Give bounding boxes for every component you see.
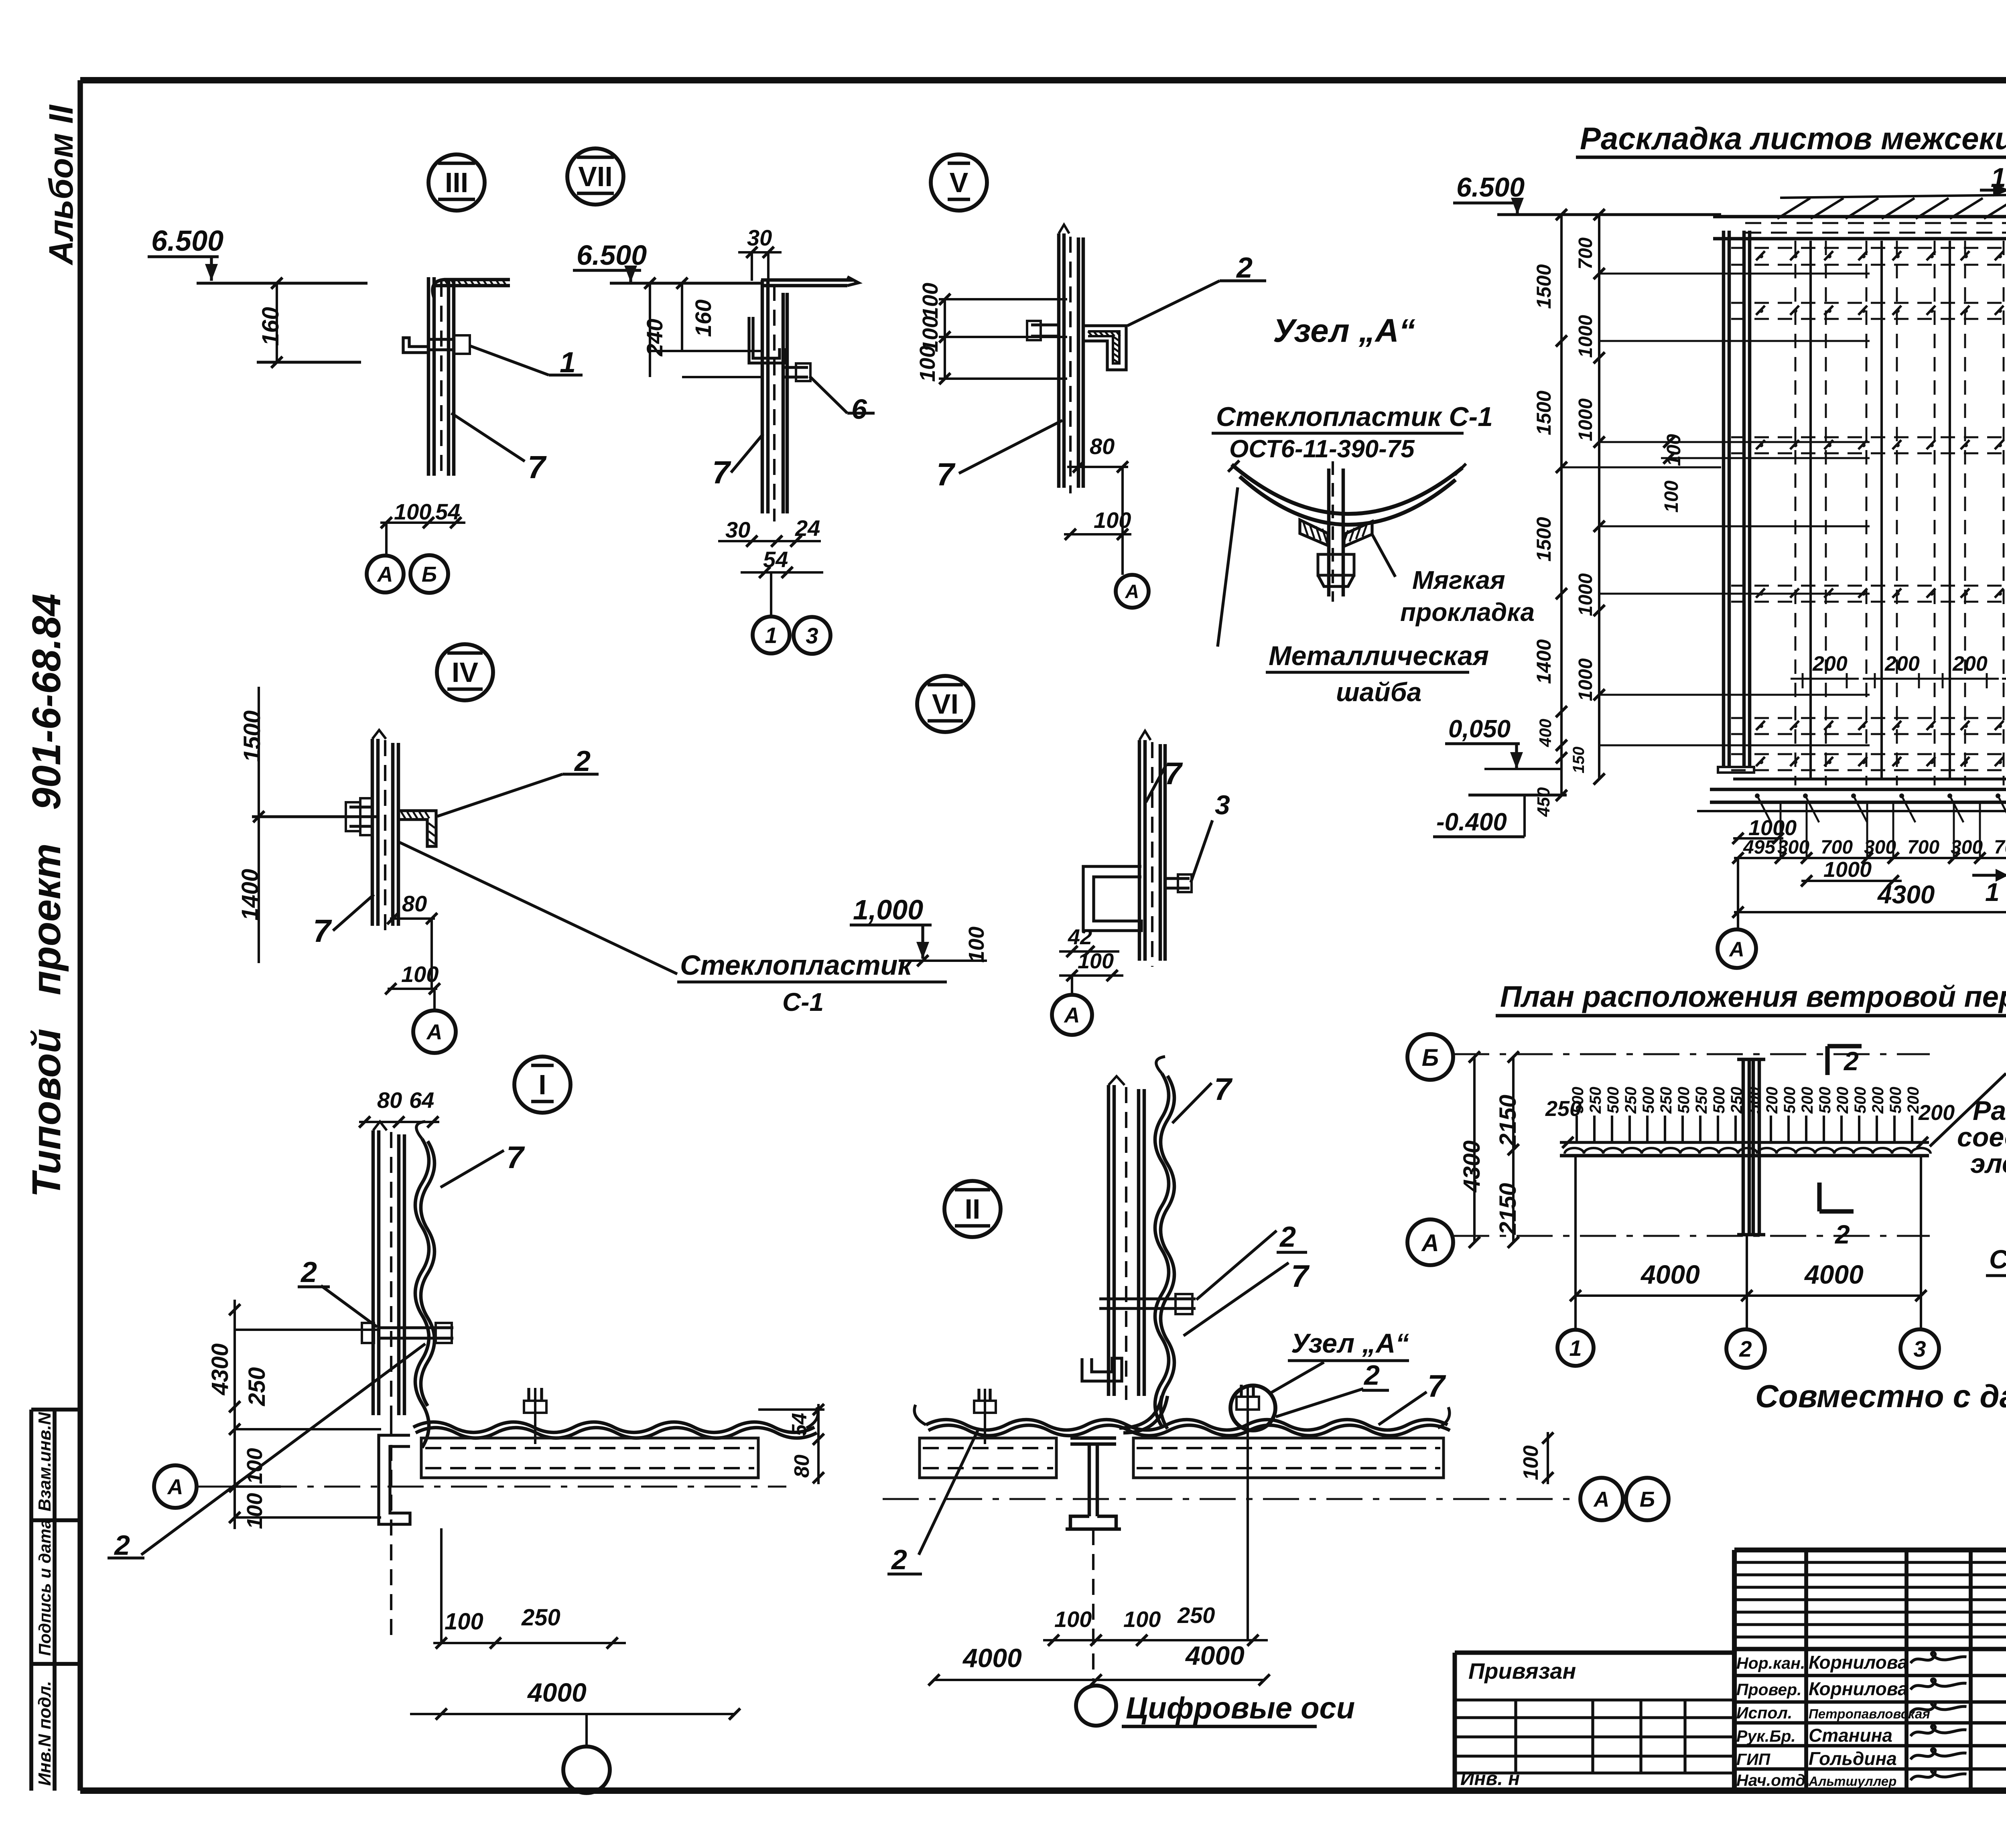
svg-text:42: 42 xyxy=(1068,925,1092,949)
svg-text:А: А xyxy=(1421,1229,1439,1256)
svg-text:1000: 1000 xyxy=(1823,858,1872,882)
svg-text:200: 200 xyxy=(1763,1087,1781,1114)
svg-text:7: 7 xyxy=(528,449,547,485)
svg-text:IV: IV xyxy=(452,657,478,688)
svg-text:100: 100 xyxy=(1661,481,1682,513)
svg-text:250: 250 xyxy=(521,1605,560,1631)
svg-text:300: 300 xyxy=(1864,837,1896,858)
svg-text:А: А xyxy=(1064,1003,1080,1027)
svg-text:250: 250 xyxy=(244,1367,270,1406)
svg-text:Инв.N подл.: Инв.N подл. xyxy=(35,1681,55,1786)
svg-text:500: 500 xyxy=(1887,1087,1904,1114)
svg-text:700: 700 xyxy=(1907,837,1939,858)
svg-text:Металлическая: Металлическая xyxy=(1269,641,1489,671)
svg-text:V: V xyxy=(950,167,968,198)
svg-text:Альтшуллер: Альтшуллер xyxy=(1808,1774,1896,1789)
svg-text:1000: 1000 xyxy=(1748,816,1797,840)
svg-text:шайба: шайба xyxy=(1336,677,1421,707)
svg-text:2: 2 xyxy=(1739,1336,1752,1361)
svg-text:III: III xyxy=(445,167,468,198)
svg-text:700: 700 xyxy=(1575,237,1596,270)
svg-text:200: 200 xyxy=(1799,1087,1816,1114)
svg-text:Нач.отд.: Нач.отд. xyxy=(1736,1771,1810,1789)
svg-text:Рук.Бр.: Рук.Бр. xyxy=(1736,1727,1796,1745)
svg-text:7: 7 xyxy=(712,454,731,490)
svg-text:А: А xyxy=(1593,1487,1610,1511)
svg-text:250: 250 xyxy=(1622,1087,1640,1114)
svg-text:500: 500 xyxy=(1710,1087,1728,1114)
svg-text:7: 7 xyxy=(313,913,332,949)
svg-text:Б: Б xyxy=(1640,1487,1655,1511)
svg-text:2: 2 xyxy=(891,1544,907,1575)
svg-text:2: 2 xyxy=(574,745,591,777)
svg-text:250: 250 xyxy=(1587,1087,1604,1114)
svg-text:Цифровые оси: Цифровые оси xyxy=(1126,1691,1355,1725)
svg-text:700: 700 xyxy=(1994,837,2006,858)
svg-text:500: 500 xyxy=(1852,1087,1869,1114)
svg-text:Станина: Станина xyxy=(1809,1725,1892,1746)
svg-text:30: 30 xyxy=(747,225,772,250)
svg-text:4000: 4000 xyxy=(1640,1260,1700,1289)
svg-text:80: 80 xyxy=(790,1454,814,1478)
svg-text:2150: 2150 xyxy=(1495,1095,1521,1147)
svg-text:Б: Б xyxy=(1422,1044,1439,1071)
svg-text:1: 1 xyxy=(765,623,777,648)
svg-text:100: 100 xyxy=(918,283,942,319)
svg-text:1500: 1500 xyxy=(239,710,265,762)
svg-text:3: 3 xyxy=(806,623,818,648)
svg-text:200: 200 xyxy=(1918,1101,1955,1125)
svg-text:150: 150 xyxy=(1570,747,1588,773)
svg-text:А: А xyxy=(377,562,393,586)
svg-text:300: 300 xyxy=(1777,837,1809,858)
svg-text:495: 495 xyxy=(1743,837,1776,858)
svg-text:2: 2 xyxy=(300,1256,317,1288)
svg-text:4000: 4000 xyxy=(527,1678,587,1707)
svg-text:А: А xyxy=(1728,938,1744,961)
svg-text:160: 160 xyxy=(690,300,716,337)
svg-text:Альбом II: Альбом II xyxy=(42,104,80,266)
svg-text:1400: 1400 xyxy=(1533,639,1555,684)
svg-text:160: 160 xyxy=(258,307,284,346)
svg-text:Привязан: Привязан xyxy=(1468,1658,1576,1684)
svg-text:80: 80 xyxy=(402,891,427,916)
svg-text:6: 6 xyxy=(851,394,867,425)
svg-text:элемента: элемента xyxy=(1970,1148,2006,1179)
svg-text:Мягкая: Мягкая xyxy=(1412,566,1505,594)
svg-text:0,050: 0,050 xyxy=(1448,715,1511,743)
svg-text:1: 1 xyxy=(1985,878,2000,907)
svg-text:1000: 1000 xyxy=(1575,573,1596,616)
svg-text:Нор.кан.: Нор.кан. xyxy=(1736,1654,1805,1672)
svg-text:2: 2 xyxy=(1834,1219,1850,1249)
svg-text:80: 80 xyxy=(1090,434,1115,459)
svg-text:250: 250 xyxy=(1657,1087,1675,1114)
svg-text:100: 100 xyxy=(445,1609,483,1635)
svg-text:1000: 1000 xyxy=(1575,398,1596,441)
svg-text:100: 100 xyxy=(1094,507,1131,533)
svg-text:2: 2 xyxy=(1236,252,1253,284)
svg-text:7: 7 xyxy=(1427,1368,1446,1404)
svg-text:Стеклопластик: Стеклопластик xyxy=(680,949,914,981)
svg-text:2: 2 xyxy=(1843,1046,1859,1076)
svg-text:2: 2 xyxy=(1363,1359,1380,1391)
svg-text:Инв. н: Инв. н xyxy=(1460,1768,1520,1789)
svg-text:С-1: С-1 xyxy=(782,988,824,1016)
svg-text:500: 500 xyxy=(1569,1087,1587,1114)
svg-text:Типовой проект 901-6-68.84: Типовой проект 901-6-68.84 xyxy=(24,594,69,1197)
svg-text:Корнилова: Корнилова xyxy=(1809,1652,1908,1673)
svg-text:1500: 1500 xyxy=(1533,517,1555,562)
svg-text:200: 200 xyxy=(1812,652,1848,676)
svg-text:Петропавловская: Петропавловская xyxy=(1809,1706,1930,1721)
svg-text:I: I xyxy=(538,1069,546,1100)
svg-text:Б: Б xyxy=(422,562,437,586)
svg-text:Стеклопластик С-1: Стеклопластик С-1 xyxy=(1216,402,1493,432)
svg-text:3: 3 xyxy=(1913,1336,1926,1361)
svg-text:Провер.: Провер. xyxy=(1736,1680,1802,1699)
svg-text:100: 100 xyxy=(243,1448,267,1484)
svg-text:100: 100 xyxy=(243,1493,267,1529)
svg-text:100: 100 xyxy=(394,499,431,524)
svg-text:-0.400: -0.400 xyxy=(1436,808,1507,836)
svg-text:200: 200 xyxy=(1869,1087,1887,1114)
svg-text:II: II xyxy=(965,1193,981,1225)
svg-text:250: 250 xyxy=(1177,1603,1215,1628)
svg-text:Гольдина: Гольдина xyxy=(1809,1748,1897,1769)
svg-text:4000: 4000 xyxy=(1185,1641,1245,1670)
svg-text:54: 54 xyxy=(788,1413,811,1436)
svg-text:200: 200 xyxy=(1884,652,1920,676)
svg-text:7: 7 xyxy=(1291,1258,1310,1294)
svg-text:4300: 4300 xyxy=(1877,880,1935,909)
svg-text:500: 500 xyxy=(1640,1087,1657,1114)
svg-text:1500: 1500 xyxy=(1533,264,1555,309)
svg-text:ГИП: ГИП xyxy=(1736,1750,1771,1769)
svg-text:1500: 1500 xyxy=(1533,391,1555,435)
svg-text:80: 80 xyxy=(377,1087,402,1113)
svg-text:400: 400 xyxy=(1536,719,1555,747)
svg-text:А: А xyxy=(167,1475,183,1499)
svg-text:200: 200 xyxy=(1834,1087,1852,1114)
svg-text:500: 500 xyxy=(1604,1087,1622,1114)
svg-text:1,000: 1,000 xyxy=(853,894,923,925)
svg-text:Подпись и дата: Подпись и дата xyxy=(35,1519,54,1656)
svg-text:Совместно с данным см. л. КЖ-9: Совместно с данным см. л. КЖ-9 xyxy=(1755,1378,2006,1414)
svg-text:А: А xyxy=(426,1020,443,1044)
svg-text:500: 500 xyxy=(1675,1087,1693,1114)
svg-text:4000: 4000 xyxy=(962,1643,1022,1673)
svg-text:100: 100 xyxy=(916,346,940,382)
svg-text:200: 200 xyxy=(1952,652,1988,676)
svg-text:Взам.инв.N: Взам.инв.N xyxy=(35,1412,55,1511)
svg-text:А: А xyxy=(1125,581,1139,602)
svg-text:прокладка: прокладка xyxy=(1400,598,1535,627)
svg-text:300: 300 xyxy=(1951,837,1983,858)
svg-text:64: 64 xyxy=(409,1087,434,1113)
svg-text:4300: 4300 xyxy=(1459,1140,1485,1193)
svg-text:3: 3 xyxy=(1215,790,1230,820)
svg-text:450: 450 xyxy=(1534,787,1553,817)
svg-text:4000: 4000 xyxy=(1804,1260,1864,1289)
svg-text:30: 30 xyxy=(725,517,750,542)
svg-text:План расположения ветровой пер: План расположения ветровой перегородки xyxy=(1500,980,2006,1013)
svg-text:Разбивка: Разбивка xyxy=(1973,1095,2006,1126)
svg-text:100: 100 xyxy=(1123,1607,1161,1632)
svg-text:Узел „А“: Узел „А“ xyxy=(1291,1328,1409,1359)
svg-text:1000: 1000 xyxy=(1575,315,1596,358)
svg-text:7: 7 xyxy=(936,456,956,492)
svg-text:1: 1 xyxy=(560,347,576,379)
svg-text:2: 2 xyxy=(114,1530,130,1561)
svg-text:700: 700 xyxy=(1821,837,1853,858)
svg-text:1: 1 xyxy=(1569,1335,1582,1361)
svg-text:4300: 4300 xyxy=(207,1343,233,1396)
svg-text:100: 100 xyxy=(1054,1607,1092,1632)
svg-text:VII: VII xyxy=(578,161,613,192)
svg-text:100: 100 xyxy=(1519,1445,1543,1480)
svg-text:500: 500 xyxy=(1816,1087,1834,1114)
svg-text:100: 100 xyxy=(401,962,439,987)
svg-text:Стеклопластик: Стеклопластик xyxy=(1989,1244,2006,1274)
svg-text:7: 7 xyxy=(1164,756,1183,791)
svg-text:250: 250 xyxy=(1693,1087,1710,1114)
svg-text:Узел „А“: Узел „А“ xyxy=(1273,312,1415,349)
svg-text:Корнилова: Корнилова xyxy=(1809,1678,1908,1699)
svg-text:100: 100 xyxy=(964,927,989,963)
svg-text:Испол.: Испол. xyxy=(1736,1704,1792,1722)
svg-text:6.500: 6.500 xyxy=(151,225,223,257)
svg-text:VI: VI xyxy=(932,688,958,720)
svg-text:соединительного: соединительного xyxy=(1957,1122,2006,1152)
svg-text:2: 2 xyxy=(1279,1221,1296,1253)
svg-text:7: 7 xyxy=(1214,1071,1233,1107)
svg-text:500: 500 xyxy=(1781,1087,1799,1114)
svg-text:1000: 1000 xyxy=(1575,658,1596,701)
svg-text:7: 7 xyxy=(506,1140,525,1175)
svg-text:ОСТ6-11-390-75: ОСТ6-11-390-75 xyxy=(1229,435,1415,463)
svg-text:Раскладка листов межсекционной: Раскладка листов межсекционной обшивки xyxy=(1580,121,2006,156)
svg-text:2150: 2150 xyxy=(1495,1183,1521,1235)
